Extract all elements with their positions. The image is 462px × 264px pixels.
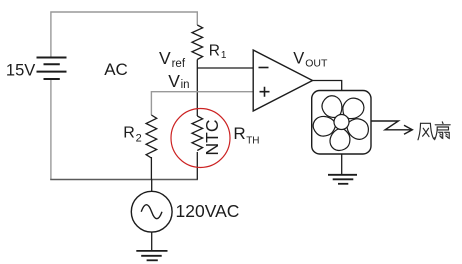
svg-text:R: R	[123, 125, 135, 142]
svg-text:ref: ref	[172, 58, 186, 70]
resistor R2	[146, 115, 157, 158]
wire fan to ground	[341, 154, 343, 175]
thermistor RTH (NTC)	[192, 116, 203, 151]
wire NTC bottom lead	[196, 152, 198, 180]
sine wave	[141, 205, 162, 219]
ground (fan)	[328, 175, 357, 184]
svg-text:NTC: NTC	[202, 120, 222, 156]
wire R2 bottom lead	[150, 157, 152, 180]
fan body (rounded box)	[312, 91, 371, 155]
svg-text:1: 1	[221, 50, 227, 61]
wire Vin (R2 top junction to op-amp non-inverting input)	[151, 92, 253, 115]
op-amp U1	[253, 50, 312, 111]
AC source 120VAC	[151, 180, 153, 192]
svg-text:120VAC: 120VAC	[176, 201, 240, 221]
op-amp minus sign	[259, 67, 269, 69]
svg-text:AC: AC	[104, 60, 128, 79]
svg-text:2: 2	[136, 133, 142, 145]
wire op-amp output to fan	[313, 81, 342, 91]
fan hub	[334, 115, 349, 130]
ground (AC source)	[136, 251, 167, 260]
battery 15V	[37, 58, 67, 80]
svg-text:15V: 15V	[6, 62, 35, 80]
svg-text:R: R	[233, 124, 245, 143]
svg-text:R: R	[209, 42, 220, 59]
annotation red circle around NTC	[171, 109, 230, 168]
op-amp plus sign	[260, 87, 270, 97]
wire top rail (battery + to R1 top)	[51, 12, 197, 58]
airflow arrow to label	[371, 121, 412, 130]
svg-text:TH: TH	[246, 136, 259, 147]
resistor R1	[192, 25, 203, 59]
svg-text:V: V	[168, 71, 180, 91]
wire R1 bottom to NTC top (node Vref vertical)	[196, 60, 198, 117]
svg-text:OUT: OUT	[305, 57, 328, 69]
svg-text:V: V	[293, 49, 304, 67]
svg-text:in: in	[181, 79, 190, 91]
wire Vref (R1/NTC junction to op-amp inverting input)	[197, 67, 253, 69]
wire left rail (battery - down to bottom rail)	[50, 79, 52, 180]
wire bottom rail	[50, 179, 198, 181]
fan blades	[311, 92, 371, 150]
label 风扇 (fan) drawn strokes	[418, 122, 450, 140]
svg-text:V: V	[159, 48, 171, 68]
wire AC to ground	[151, 232, 153, 251]
